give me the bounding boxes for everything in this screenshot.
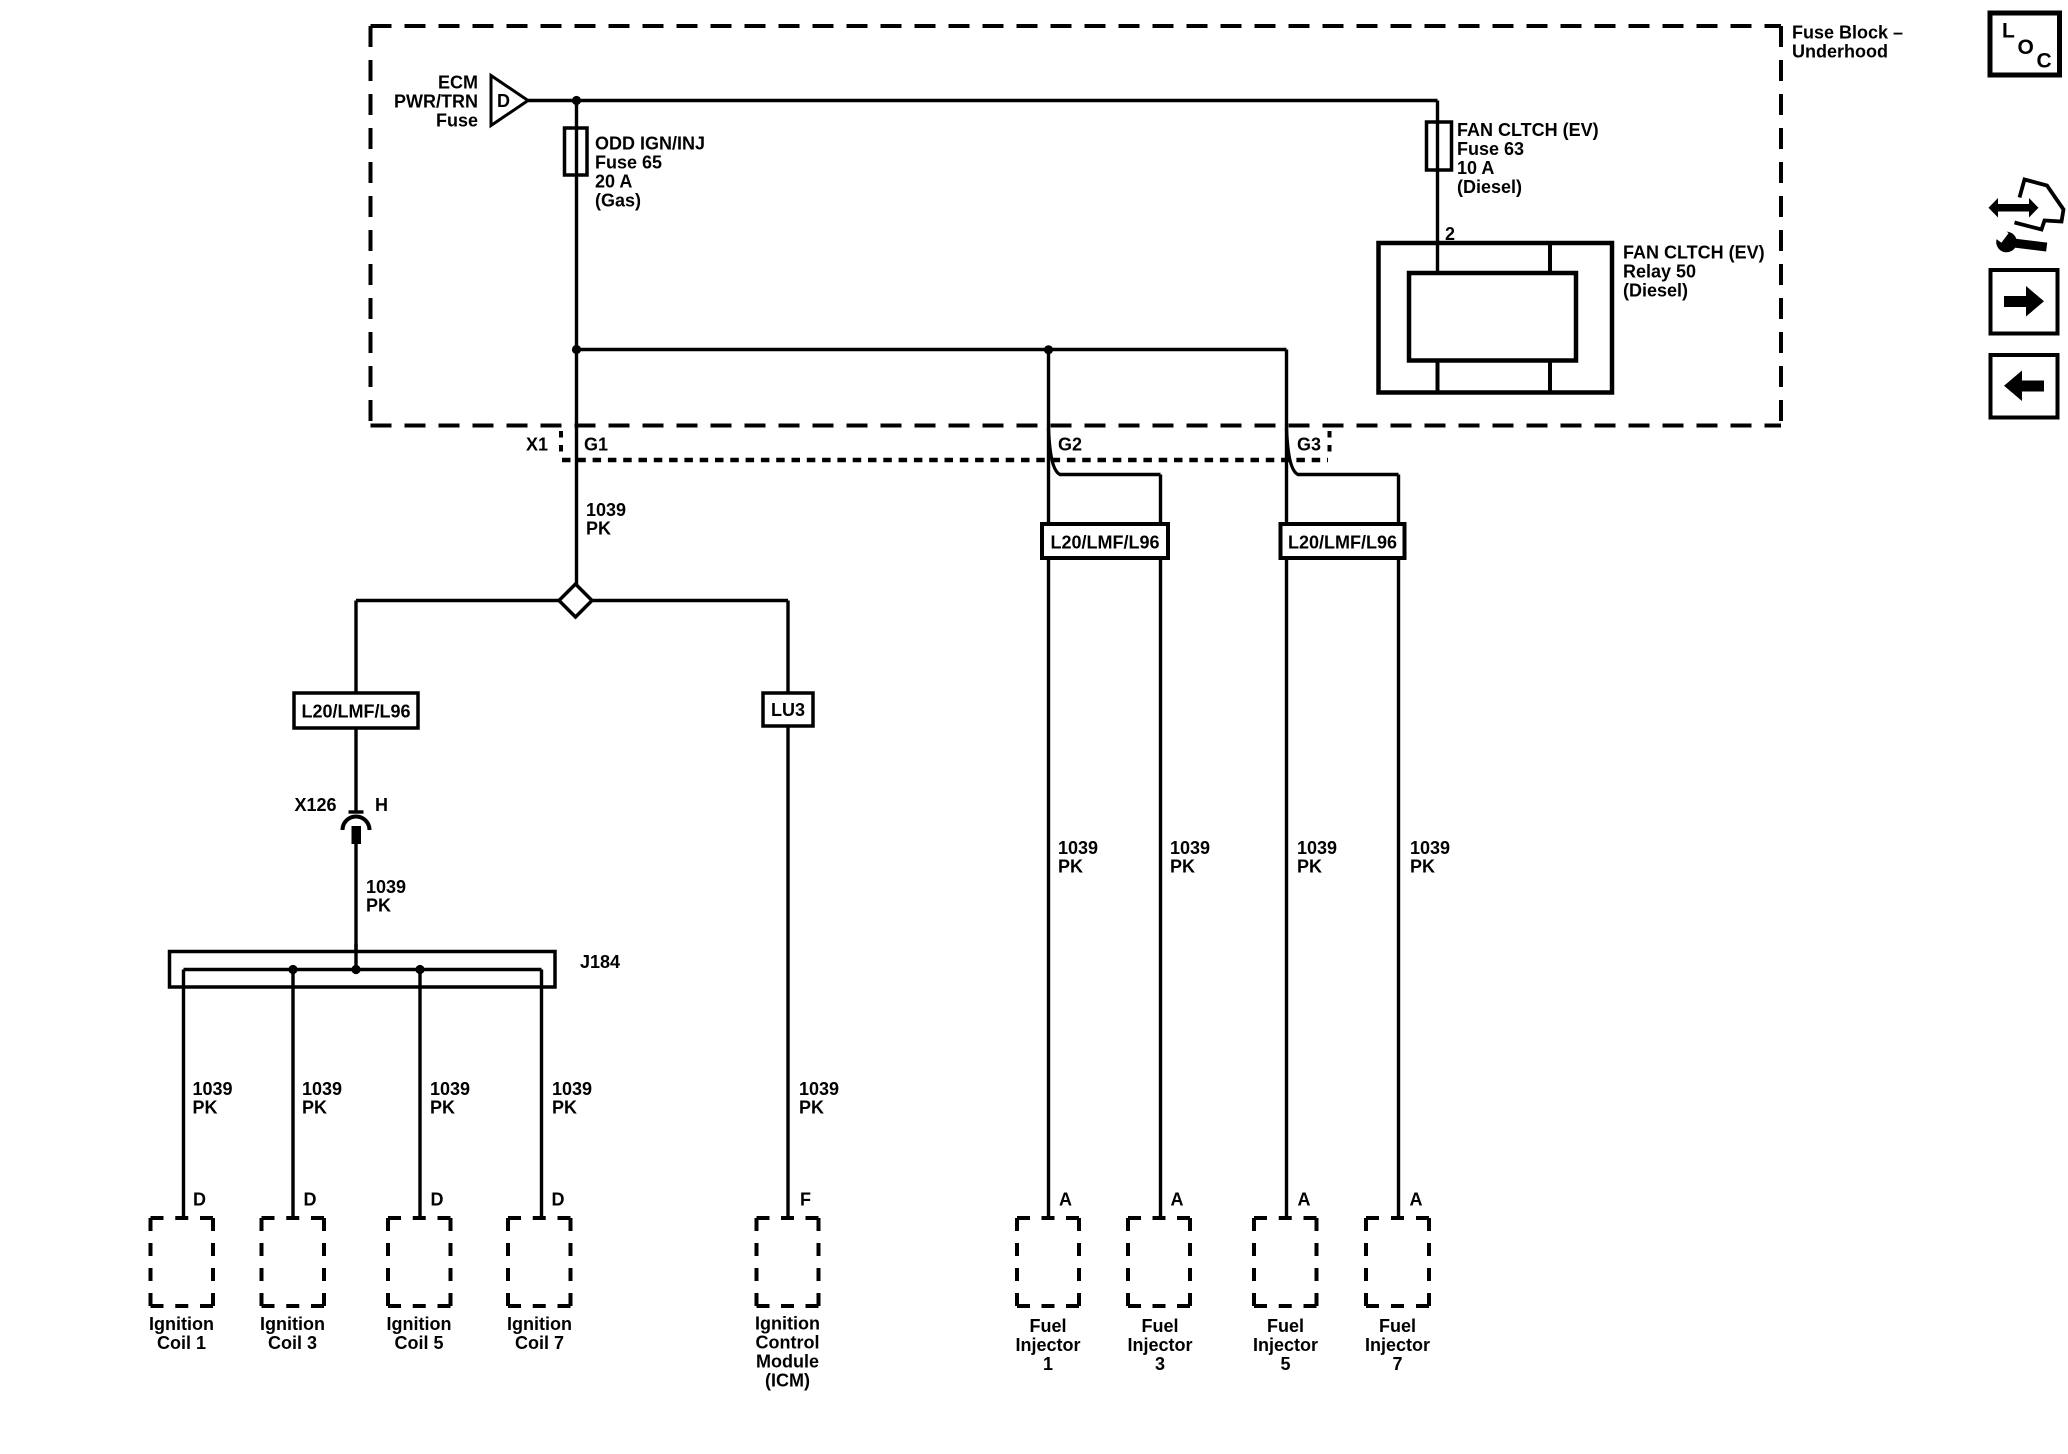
svg-text:Injector: Injector bbox=[1127, 1335, 1192, 1355]
svg-text:FAN CLTCH (EV): FAN CLTCH (EV) bbox=[1623, 243, 1765, 263]
svg-text:1039: 1039 bbox=[1170, 838, 1210, 858]
svg-text:O: O bbox=[2018, 36, 2034, 59]
svg-text:D: D bbox=[497, 91, 510, 111]
svg-text:1039: 1039 bbox=[799, 1079, 839, 1099]
svg-text:X126: X126 bbox=[294, 795, 336, 815]
svg-text:G1: G1 bbox=[584, 435, 608, 455]
svg-text:Control: Control bbox=[756, 1333, 820, 1353]
svg-text:A: A bbox=[1410, 1190, 1423, 1210]
svg-text:D: D bbox=[304, 1190, 317, 1210]
svg-text:ECM: ECM bbox=[438, 73, 478, 93]
svg-text:1039: 1039 bbox=[302, 1079, 342, 1099]
svg-text:A: A bbox=[1171, 1190, 1184, 1210]
svg-text:D: D bbox=[431, 1190, 444, 1210]
svg-text:Relay 50: Relay 50 bbox=[1623, 262, 1696, 282]
svg-text:J184: J184 bbox=[580, 952, 620, 972]
svg-text:PK: PK bbox=[1170, 857, 1195, 877]
svg-text:Ignition: Ignition bbox=[149, 1314, 214, 1334]
svg-text:1039: 1039 bbox=[552, 1079, 592, 1099]
svg-text:L: L bbox=[2002, 20, 2015, 43]
svg-text:Ignition: Ignition bbox=[260, 1314, 325, 1334]
svg-text:Fuse 65: Fuse 65 bbox=[595, 153, 662, 173]
svg-text:LU3: LU3 bbox=[771, 700, 805, 720]
svg-text:1039: 1039 bbox=[586, 500, 626, 520]
svg-text:7: 7 bbox=[1392, 1354, 1402, 1374]
svg-text:H: H bbox=[375, 795, 388, 815]
svg-text:Injector: Injector bbox=[1015, 1335, 1080, 1355]
svg-text:1039: 1039 bbox=[1297, 838, 1337, 858]
svg-text:(Diesel): (Diesel) bbox=[1457, 177, 1522, 197]
svg-text:Coil 1: Coil 1 bbox=[157, 1333, 206, 1353]
svg-text:A: A bbox=[1059, 1190, 1072, 1210]
svg-text:Ignition: Ignition bbox=[755, 1314, 820, 1334]
svg-text:PWR/TRN: PWR/TRN bbox=[394, 92, 478, 112]
svg-text:L20/LMF/L96: L20/LMF/L96 bbox=[1050, 533, 1159, 553]
svg-text:(ICM): (ICM) bbox=[765, 1371, 810, 1391]
svg-text:L20/LMF/L96: L20/LMF/L96 bbox=[1288, 533, 1397, 553]
svg-text:20 A: 20 A bbox=[595, 172, 632, 192]
svg-text:ODD IGN/INJ: ODD IGN/INJ bbox=[595, 134, 705, 154]
svg-text:Ignition: Ignition bbox=[387, 1314, 452, 1334]
svg-text:10 A: 10 A bbox=[1457, 158, 1494, 178]
svg-text:D: D bbox=[193, 1190, 206, 1210]
svg-text:G2: G2 bbox=[1058, 435, 1082, 455]
svg-text:PK: PK bbox=[1297, 857, 1322, 877]
svg-text:Underhood: Underhood bbox=[1792, 42, 1888, 62]
svg-text:2: 2 bbox=[1445, 224, 1455, 244]
svg-text:PK: PK bbox=[1058, 857, 1083, 877]
svg-text:1039: 1039 bbox=[1058, 838, 1098, 858]
svg-text:Injector: Injector bbox=[1253, 1335, 1318, 1355]
svg-text:Fuel: Fuel bbox=[1267, 1316, 1304, 1336]
svg-text:X1: X1 bbox=[526, 435, 548, 455]
svg-text:PK: PK bbox=[586, 519, 611, 539]
svg-text:1039: 1039 bbox=[430, 1079, 470, 1099]
svg-text:PK: PK bbox=[193, 1098, 218, 1118]
svg-text:PK: PK bbox=[302, 1098, 327, 1118]
svg-text:PK: PK bbox=[1410, 857, 1435, 877]
svg-text:PK: PK bbox=[366, 896, 391, 916]
svg-text:Fuse: Fuse bbox=[436, 111, 478, 131]
svg-text:D: D bbox=[552, 1190, 565, 1210]
svg-text:PK: PK bbox=[799, 1098, 824, 1118]
svg-text:Coil 7: Coil 7 bbox=[515, 1333, 564, 1353]
svg-text:1039: 1039 bbox=[366, 877, 406, 897]
svg-text:Fuel: Fuel bbox=[1141, 1316, 1178, 1336]
svg-text:F: F bbox=[800, 1190, 811, 1210]
svg-text:(Gas): (Gas) bbox=[595, 191, 641, 211]
svg-text:A: A bbox=[1298, 1190, 1311, 1210]
svg-text:Fuse 63: Fuse 63 bbox=[1457, 139, 1524, 159]
svg-text:3: 3 bbox=[1155, 1354, 1165, 1374]
svg-text:Ignition: Ignition bbox=[507, 1314, 572, 1334]
svg-text:C: C bbox=[2037, 50, 2052, 73]
svg-text:PK: PK bbox=[552, 1098, 577, 1118]
svg-text:1039: 1039 bbox=[193, 1079, 233, 1099]
svg-text:5: 5 bbox=[1280, 1354, 1290, 1374]
svg-text:1039: 1039 bbox=[1410, 838, 1450, 858]
svg-text:Coil 3: Coil 3 bbox=[268, 1333, 317, 1353]
svg-text:FAN CLTCH (EV): FAN CLTCH (EV) bbox=[1457, 120, 1599, 140]
svg-text:Injector: Injector bbox=[1365, 1335, 1430, 1355]
svg-text:Module: Module bbox=[756, 1352, 819, 1372]
svg-text:Fuel: Fuel bbox=[1379, 1316, 1416, 1336]
svg-text:Fuel: Fuel bbox=[1029, 1316, 1066, 1336]
svg-text:(Diesel): (Diesel) bbox=[1623, 281, 1688, 301]
svg-text:PK: PK bbox=[430, 1098, 455, 1118]
svg-text:G3: G3 bbox=[1297, 435, 1321, 455]
svg-text:1: 1 bbox=[1043, 1354, 1053, 1374]
svg-text:L20/LMF/L96: L20/LMF/L96 bbox=[301, 702, 410, 722]
svg-text:Fuse Block –: Fuse Block – bbox=[1792, 23, 1903, 43]
svg-text:Coil 5: Coil 5 bbox=[394, 1333, 443, 1353]
